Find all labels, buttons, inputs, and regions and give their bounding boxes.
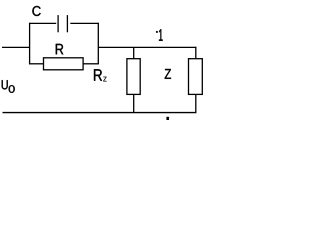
stray mark bottom edge <box>167 117 169 120</box>
wire left node to resistor R <box>29 63 44 65</box>
wire bottom rail <box>3 112 197 114</box>
wire input lead left terminal <box>2 46 30 48</box>
wire right node vertical <box>97 23 99 65</box>
capacitor C left plate <box>57 15 59 32</box>
wire stub node 1 down to resistor R2 <box>133 47 135 59</box>
label U0 subscript 0 <box>9 85 15 93</box>
wire resistor R to right node <box>83 63 98 65</box>
label R2 resistor reference R <box>94 69 102 80</box>
wire output node 1 horizontal <box>98 46 196 48</box>
label C capacitor <box>32 6 40 16</box>
label R resistor <box>56 44 64 54</box>
label U0 voltage U <box>2 80 8 89</box>
impedance Z body <box>189 59 203 95</box>
resistor R2 body <box>127 59 140 95</box>
wire left node vertical <box>29 23 31 65</box>
wire top to capacitor left plate <box>29 22 56 24</box>
wire resistor R2 down to bottom rail <box>133 94 135 113</box>
label Z impedance <box>165 69 171 79</box>
resistor R body <box>44 58 84 70</box>
capacitor C right plate <box>66 15 68 32</box>
wire corner down to impedance Z <box>195 47 197 59</box>
wire capacitor right plate to right node <box>70 22 99 24</box>
label R2 subscript z <box>103 77 106 82</box>
wire impedance Z down to bottom rail <box>195 94 197 113</box>
node 1 leading dot mark <box>156 31 157 32</box>
label node 1 <box>159 29 163 41</box>
